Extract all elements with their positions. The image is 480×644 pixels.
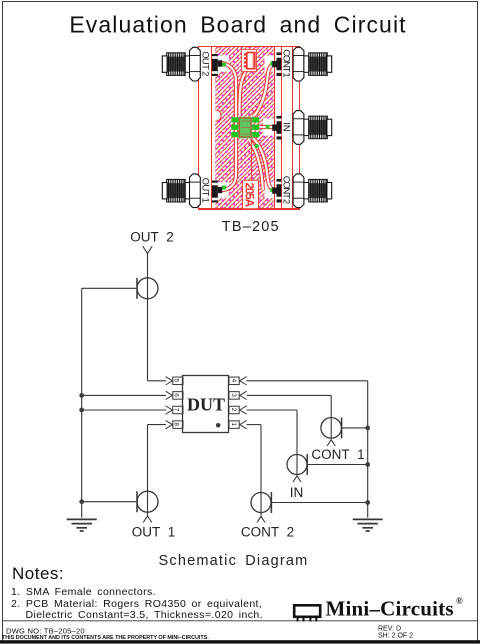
svg-text:Dielectric Constant=3.5, Thick: Dielectric Constant=3.5, Thickness=.020 … xyxy=(26,609,263,621)
svg-text:OUT 2: OUT 2 xyxy=(130,230,174,245)
svg-text:2: 2 xyxy=(230,408,237,412)
svg-text:®: ® xyxy=(456,596,463,606)
svg-text:TB–205: TB–205 xyxy=(222,219,280,235)
svg-text:REV: D: REV: D xyxy=(378,626,401,633)
svg-text:Evaluation Board and Circuit: Evaluation Board and Circuit xyxy=(69,11,406,37)
svg-text:CONT 2: CONT 2 xyxy=(280,176,291,204)
svg-text:IN: IN xyxy=(280,122,291,132)
svg-text:205A: 205A xyxy=(242,183,254,208)
svg-text:SH: 2 OF 2: SH: 2 OF 2 xyxy=(378,633,413,640)
svg-text:DUT: DUT xyxy=(187,395,225,415)
svg-text:OUT 2: OUT 2 xyxy=(200,51,211,76)
svg-text:CONT 1: CONT 1 xyxy=(280,49,291,77)
svg-text:IN: IN xyxy=(290,485,304,500)
svg-text:Mini–Circuits: Mini–Circuits xyxy=(326,597,454,621)
svg-text:1: 1 xyxy=(230,422,237,426)
svg-text:CONT 2: CONT 2 xyxy=(241,524,294,539)
svg-text:Notes:: Notes: xyxy=(12,564,64,583)
svg-text:8: 8 xyxy=(173,422,180,426)
svg-text:OUT 1: OUT 1 xyxy=(132,524,176,539)
svg-text:4: 4 xyxy=(230,379,237,383)
svg-text:5: 5 xyxy=(173,379,180,383)
svg-text:THIS DOCUMENT AND ITS CONTENTS: THIS DOCUMENT AND ITS CONTENTS ARE THE P… xyxy=(2,635,209,641)
svg-text:6: 6 xyxy=(173,393,180,397)
svg-text:OUT 1: OUT 1 xyxy=(200,178,211,203)
svg-text:Schematic Diagram: Schematic Diagram xyxy=(159,553,309,569)
svg-text:7: 7 xyxy=(173,408,180,412)
svg-text:CONT 1: CONT 1 xyxy=(311,447,364,462)
svg-text:1. SMA Female connectors.: 1. SMA Female connectors. xyxy=(11,586,156,598)
svg-text:3: 3 xyxy=(230,393,237,397)
